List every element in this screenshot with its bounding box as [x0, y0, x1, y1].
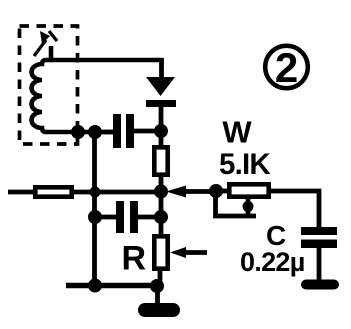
capacitor C 0.22u — [301, 227, 337, 235]
resistor R body — [154, 236, 167, 268]
node: dot at pot terminal — [209, 184, 223, 198]
inductor L (antenna coil) — [32, 60, 164, 132]
capacitor (lower bypass) — [116, 201, 124, 233]
wire: lower cap left lead — [95, 215, 116, 220]
node: dot right rail / lower cap — [154, 210, 168, 224]
svg-text:5.IK: 5.IK — [219, 148, 271, 181]
arrow (pointing at R) — [170, 247, 186, 258]
arrow (signal into junction) — [166, 186, 186, 198]
callout circle 2 — [265, 46, 308, 89]
capacitor (upper coupling cap) — [113, 114, 121, 148]
node: dot bottom corner — [150, 279, 164, 293]
node: main junction dot — [154, 185, 168, 199]
resistor (left horizontal) — [35, 187, 71, 196]
wire: lower cap right lead — [138, 215, 161, 220]
ground (right) — [301, 280, 339, 290]
wire: bus junction down to R — [159, 191, 164, 237]
wire: diode drop — [159, 58, 164, 79]
svg-text:R: R — [122, 240, 147, 278]
wire: diode to junction — [159, 105, 164, 148]
wire: stub to ground — [155, 286, 160, 305]
wire: wiper return loop — [216, 193, 257, 216]
wire: left vertical rail — [92, 132, 97, 286]
wire: cap right lead — [134, 129, 161, 134]
ground (bottom) — [138, 303, 180, 317]
node: dot bus/left-rail — [90, 187, 101, 198]
wire: left bus segment — [8, 190, 35, 195]
wire: cap left lead / coil bottom — [95, 130, 113, 135]
node: dot left rail / lower cap — [88, 210, 102, 224]
node: dot left rail top — [88, 125, 102, 139]
svg-text:W: W — [222, 115, 252, 150]
svg-text:0.22µ: 0.22µ — [240, 247, 305, 277]
adjuster arrow (tuning slug) — [34, 31, 57, 58]
diode VD — [146, 77, 175, 96]
resistor (upper, between diode and bus) — [154, 147, 167, 174]
wire: dot to pot — [216, 189, 230, 194]
wire: pot to cap C — [267, 191, 319, 229]
node: junction dot (diode/cap/resistor) — [154, 124, 168, 138]
shield box (dashed enclosure) — [20, 26, 78, 144]
wire: R to bottom rail — [158, 268, 163, 286]
wiper arm of W — [246, 198, 251, 216]
node: dot at shield crossing — [71, 125, 85, 139]
wire: resistor to bus — [159, 174, 164, 196]
potentiometer W 5.1K body — [229, 184, 268, 196]
wire: bus mid segment — [71, 190, 161, 195]
node: dot bottom rail — [88, 279, 102, 293]
svg-text:2: 2 — [275, 44, 298, 91]
wire: bottom rail — [66, 283, 158, 288]
wire: cap C to ground — [317, 248, 322, 282]
